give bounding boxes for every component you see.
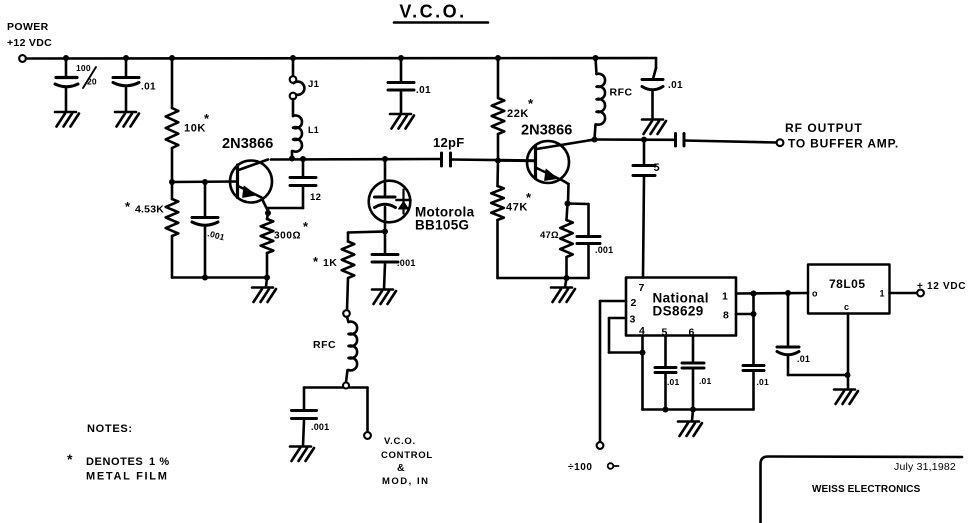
label R4 1K <box>313 254 337 269</box>
label R6 47K* <box>506 190 532 214</box>
wire Q2 gnd stub <box>565 278 567 287</box>
wire R7 top lead <box>567 204 568 221</box>
wire C15 bottom lead <box>788 356 848 375</box>
node D1 bottom <box>382 229 388 235</box>
pin U1-2 <box>631 297 637 309</box>
wire C8 top lead <box>384 232 387 255</box>
svg-text:*: * <box>125 199 131 214</box>
wire RFC1 top lead <box>596 58 597 74</box>
resistor R1 10K <box>166 108 179 148</box>
label C9 .001 <box>595 245 613 255</box>
wire C7 top lead <box>653 58 656 79</box>
svg-text:47K: 47K <box>506 202 528 214</box>
svg-text:*: * <box>528 96 534 111</box>
wire C16 top lead <box>303 388 306 411</box>
ground Q2 stage <box>551 288 575 303</box>
svg-text:METAL FILM: METAL FILM <box>86 471 169 483</box>
svg-text:7: 7 <box>639 282 645 294</box>
wire R7 bottom lead <box>565 257 568 278</box>
svg-text:.001: .001 <box>311 422 329 432</box>
jumper J1 loop <box>294 82 305 95</box>
pin U1-4 <box>639 325 645 337</box>
label R7 47ohm <box>540 230 559 241</box>
capacitor C15 .01 lead <box>787 293 790 347</box>
wire C2 top lead <box>125 58 128 77</box>
ground below C2 <box>115 112 139 127</box>
label C3 .01 <box>416 85 431 96</box>
svg-text:July 31,1982: July 31,1982 <box>894 461 956 473</box>
pin U1-5 <box>662 327 668 339</box>
svg-text:*: * <box>204 111 210 126</box>
terminal divide by 100 output <box>597 442 604 449</box>
wire mod node right <box>349 388 368 433</box>
svg-text:20: 20 <box>87 77 97 87</box>
capacitor C11 5 <box>633 166 655 176</box>
svg-text:12pF: 12pF <box>433 135 465 150</box>
resistor R2 4.53K <box>166 199 179 236</box>
svg-text:*: * <box>526 190 532 205</box>
pin U2 in <box>812 289 818 299</box>
svg-text:V.C.O.: V.C.O. <box>384 436 416 447</box>
wire mod node left <box>304 386 343 389</box>
wire C2 bottom lead <box>125 87 128 112</box>
ground below C16 <box>290 447 314 462</box>
capacitor C5 12 <box>290 178 316 186</box>
terminal power input <box>19 55 26 62</box>
IC U1 DS8629 box <box>626 278 736 336</box>
capacitor C4 .001 <box>192 218 218 226</box>
wire D1 top lead <box>384 159 387 181</box>
wire U1 pin8 right <box>736 313 754 316</box>
svg-text:DENOTES: DENOTES <box>86 456 143 468</box>
pin U1-8 <box>723 310 729 322</box>
svg-text:MOD, IN: MOD, IN <box>382 476 429 487</box>
wire Q2 collector <box>588 140 595 141</box>
node C12 rail <box>663 407 669 413</box>
wire R5 to base node <box>497 134 500 161</box>
wire C9 bottom lead <box>587 246 590 279</box>
node pin8 junction <box>751 311 757 317</box>
wire collector output line <box>595 138 676 141</box>
svg-text:47Ω: 47Ω <box>540 230 559 241</box>
svg-text:.001: .001 <box>595 245 613 255</box>
capacitor C12 .01 <box>655 368 676 373</box>
label C11 5 <box>654 162 660 174</box>
node Q1 emitter <box>265 210 271 216</box>
node U1 pin4 junction <box>640 350 646 356</box>
label Q1 2N3866 <box>222 136 273 152</box>
label Q2 2N3866 <box>521 123 572 139</box>
pin U2 common <box>844 302 850 312</box>
inductor L1 <box>293 115 302 151</box>
label U2 78L05 <box>829 277 866 291</box>
wire C3 top lead <box>400 58 403 82</box>
wire C6 to Q2 base <box>451 160 536 161</box>
wire D1 node to R4 <box>348 232 385 233</box>
svg-text:.01: .01 <box>141 82 156 93</box>
wire U2 common down <box>847 314 850 389</box>
resistor R3 300 <box>261 219 274 253</box>
svg-text:c: c <box>844 302 850 312</box>
node Q2 emitter <box>565 201 571 207</box>
wire U1 pin5 lead <box>664 336 667 368</box>
wire C1 top lead <box>65 58 68 77</box>
label WEISS ELECTRONICS <box>812 484 921 495</box>
transistor Q1 2N3866 <box>230 160 272 212</box>
label R1 10K* <box>184 111 210 135</box>
wire Q1 emitter to node <box>267 211 270 213</box>
capacitor C16 .001 <box>292 411 317 419</box>
svg-text:L1: L1 <box>308 125 319 135</box>
svg-text:22K: 22K <box>507 108 529 120</box>
pin U2 out <box>880 289 886 299</box>
wire U1 pin6 lead <box>692 336 695 363</box>
wire U1 gnd stub <box>692 410 693 422</box>
title block border <box>761 457 963 523</box>
terminal RF output <box>777 139 784 146</box>
node top rail junctions <box>63 55 599 61</box>
node output junctions <box>592 137 648 143</box>
label C8 .001 <box>397 258 416 268</box>
wire C11 to U1 <box>643 178 644 278</box>
svg-text:300Ω: 300Ω <box>274 231 301 242</box>
wire Q1 gnd stub <box>266 278 267 288</box>
wire L1 bottom lead <box>291 151 294 158</box>
wire C4 top lead <box>204 182 207 217</box>
wire Q2 ground rail <box>498 277 589 280</box>
terminal J1 top <box>290 76 297 83</box>
label C5 12 <box>310 192 321 203</box>
node Q2 base <box>495 158 501 164</box>
svg-text:÷100: ÷100 <box>568 462 593 473</box>
wire U1 pin2 to output terminal <box>600 301 626 442</box>
capacitor C6 12pF <box>442 153 451 166</box>
ground below C1 <box>55 112 79 127</box>
svg-text:BB105G: BB105G <box>415 218 469 233</box>
svg-text:*: * <box>67 451 73 467</box>
svg-text:10K: 10K <box>184 123 206 135</box>
wire C12 bottom lead <box>664 375 667 410</box>
label divide 100 out <box>568 462 619 473</box>
wire R4 bottom lead <box>347 278 348 310</box>
label R2 4.53K <box>125 199 164 216</box>
label C16 .001 <box>311 422 329 432</box>
wire R6 top lead <box>496 161 499 187</box>
wire D1 bottom lead <box>384 222 387 232</box>
label POWER +12 VDC <box>7 21 52 49</box>
capacitor C1 100/20 <box>55 78 78 87</box>
title V.C.O. <box>394 2 488 23</box>
varactor D1 BB105G <box>369 181 411 223</box>
svg-text:CONTROL: CONTROL <box>381 450 433 461</box>
capacitor C15 .01 <box>777 347 799 355</box>
wire C5 bottom lead <box>268 188 303 214</box>
svg-text:100: 100 <box>76 63 91 73</box>
label C14 .01 <box>757 377 769 387</box>
label C4 .001 <box>206 228 225 242</box>
svg-text:J1: J1 <box>308 79 320 90</box>
IC U2 78L05 box <box>808 265 890 314</box>
terminal J1 bottom <box>290 93 297 100</box>
svg-text:o: o <box>812 289 818 299</box>
wire base node line Q1 <box>172 180 237 183</box>
wire Q2 base line <box>498 159 535 162</box>
resistor R7 47 <box>560 220 573 257</box>
node base Q1 junctions <box>169 179 208 185</box>
pin U1-7 <box>639 282 645 294</box>
node pin1 junctions <box>751 290 792 297</box>
wire C14 bottom lead <box>752 373 755 410</box>
wire tank rail <box>271 158 442 161</box>
terminal +12 VDC <box>917 290 924 297</box>
label RFC2 <box>313 339 336 351</box>
wire R1 top lead <box>171 58 174 108</box>
label L1 <box>308 125 319 135</box>
capacitor C8 .001 <box>372 255 398 263</box>
wire U1 pin4 down <box>641 336 644 410</box>
wire U1 pin3 loop <box>609 318 643 353</box>
wire to RF output terminal <box>684 141 777 143</box>
wire top +12V rail <box>26 57 656 60</box>
svg-text:.01: .01 <box>668 80 683 91</box>
pin U1-6 <box>689 327 695 339</box>
pin U1-3 <box>630 314 636 326</box>
wire C13 bottom lead <box>692 370 695 410</box>
label RFC1 <box>610 87 633 99</box>
wire U1 ground rail <box>643 408 754 411</box>
label 100/20 <box>76 63 97 88</box>
wire C8 bottom lead <box>384 264 385 289</box>
label D1 Motorola BB105G <box>415 205 475 233</box>
node Q1 ground rail <box>202 275 270 281</box>
svg-text:TO BUFFER AMP.: TO BUFFER AMP. <box>788 137 899 151</box>
svg-text:1: 1 <box>722 291 728 303</box>
ground below C3 <box>390 114 414 129</box>
inductor RFC1 <box>597 74 606 125</box>
label C7 .01 <box>668 80 683 91</box>
pin U1-1 <box>722 291 728 303</box>
svg-text:WEISS ELECTRONICS: WEISS ELECTRONICS <box>812 484 921 495</box>
svg-text:&: & <box>397 462 405 474</box>
wire right bypass vertical <box>752 294 755 366</box>
resistor R4 1K <box>342 242 355 279</box>
svg-text:POWER: POWER <box>7 21 49 33</box>
label C15 .01 <box>797 354 810 364</box>
label RF OUTPUT <box>785 121 899 151</box>
label R3 300ohm <box>274 219 309 242</box>
label U1 National DS8629 <box>653 291 709 319</box>
svg-text:4.53K: 4.53K <box>135 204 164 216</box>
svg-text:.01: .01 <box>797 354 810 364</box>
label +12 VDC out <box>917 281 966 292</box>
wire L1 top lead <box>292 99 295 116</box>
wire RFC2 bottom lead <box>346 370 348 382</box>
svg-text:.01: .01 <box>416 85 431 96</box>
svg-text:2N3866: 2N3866 <box>521 123 572 139</box>
resistor R5 22K <box>492 98 505 134</box>
svg-text:*: * <box>303 219 309 234</box>
resistor R6 47K <box>491 186 504 220</box>
label date July 31 1982 <box>894 461 956 473</box>
svg-text:+ 12 VDC: + 12 VDC <box>917 281 966 292</box>
wire J1 top lead <box>292 58 295 76</box>
capacitor C3 .01 <box>388 83 414 91</box>
ground Q1 stage <box>252 288 276 303</box>
terminal RFC2 bottom <box>343 383 349 389</box>
svg-text:.01: .01 <box>699 376 711 386</box>
wire R1 to base node <box>171 148 174 182</box>
wire R3 bottom lead <box>266 253 269 278</box>
svg-text:8: 8 <box>723 310 729 322</box>
node C13 rail <box>690 407 696 413</box>
label VCO CONTROL MOD IN <box>381 436 433 487</box>
svg-text:1 %: 1 % <box>149 456 170 468</box>
node Q2 ground rail <box>564 275 570 281</box>
svg-text:78L05: 78L05 <box>829 277 866 291</box>
capacitor C7 .01 <box>642 80 663 90</box>
terminal VCO control input <box>364 432 371 439</box>
svg-text:+12 VDC: +12 VDC <box>7 37 52 49</box>
wire R3 top lead <box>267 213 268 219</box>
label C6 12pF <box>433 135 465 150</box>
wire C4 bottom lead <box>204 227 207 278</box>
svg-text:12: 12 <box>310 192 321 203</box>
capacitor C14 .01 <box>743 366 764 371</box>
node tank junctions <box>289 156 388 163</box>
ground U1 <box>678 422 702 437</box>
svg-text:RFC: RFC <box>313 339 336 351</box>
label NOTES <box>87 423 133 435</box>
wire R2 top lead <box>171 182 174 199</box>
wire R6 bottom lead <box>496 220 499 278</box>
svg-text:.01: .01 <box>757 377 769 387</box>
svg-text:DS8629: DS8629 <box>653 304 704 319</box>
wire RFC1 bottom lead <box>595 124 596 139</box>
capacitor C10 coupling <box>676 134 685 147</box>
wire R2 bottom lead <box>171 236 174 278</box>
svg-text:RFC: RFC <box>610 87 633 99</box>
svg-text:3: 3 <box>630 314 636 326</box>
svg-text:NOTES:: NOTES: <box>87 423 133 435</box>
svg-text:2N3866: 2N3866 <box>222 136 273 152</box>
wire RFC2 top lead <box>347 317 349 322</box>
wire C9 top lead <box>568 204 589 237</box>
inductor RFC2 <box>349 322 358 371</box>
svg-text:5: 5 <box>654 162 660 174</box>
svg-text:*: * <box>313 254 319 269</box>
label C13 .01 <box>699 376 711 386</box>
svg-text:2: 2 <box>631 297 637 309</box>
wire C1 bottom lead <box>65 88 68 112</box>
label R5 22K* <box>507 96 534 120</box>
svg-text:RF OUTPUT: RF OUTPUT <box>785 121 863 135</box>
svg-text:V.C.O.: V.C.O. <box>399 2 466 22</box>
ground U2 <box>834 390 858 405</box>
svg-text:1K: 1K <box>323 257 337 269</box>
wire C11 top lead <box>643 140 646 165</box>
label denotes metal film <box>67 451 170 483</box>
wire C16 bottom lead <box>303 421 304 447</box>
transistor Q2 2N3866 <box>527 140 595 185</box>
terminal RFC2 top <box>343 310 350 317</box>
capacitor C2 .01 <box>113 78 139 86</box>
ground below C7 <box>642 120 666 135</box>
wire C5 top lead <box>302 159 305 177</box>
svg-text:1: 1 <box>880 289 886 299</box>
svg-text:.001: .001 <box>397 258 416 268</box>
wire C3 bottom lead <box>400 92 403 114</box>
wire R5 top lead <box>497 58 500 98</box>
wire U2 output <box>890 292 918 295</box>
wire U1 pin1 to 78L05 <box>736 292 808 295</box>
svg-text:.01: .01 <box>667 377 679 387</box>
label C2 .01 <box>141 82 156 93</box>
wire Q1 stage ground rail <box>172 276 267 279</box>
wire Q2 emitter lead <box>567 184 570 204</box>
wire R4 top lead <box>347 233 350 242</box>
label J1 <box>308 79 320 90</box>
capacitor C13 .01 <box>682 363 704 368</box>
ground below C8 <box>372 290 396 305</box>
capacitor C9 .001 <box>577 237 600 244</box>
label C12 .01 <box>667 377 679 387</box>
wire C7 bottom lead <box>651 91 654 119</box>
node C15 to U2 gnd <box>845 372 851 378</box>
